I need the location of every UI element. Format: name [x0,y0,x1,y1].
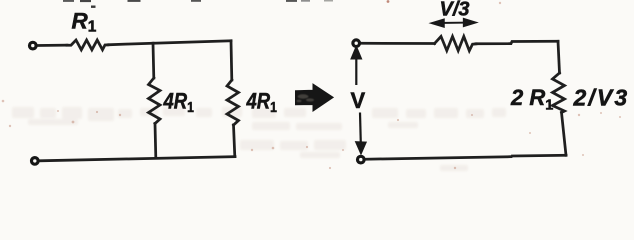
svg-text:V/3: V/3 [440,0,470,21]
svg-text:2/V3: 2/V3 [573,85,630,111]
svg-text:V: V [351,88,366,113]
